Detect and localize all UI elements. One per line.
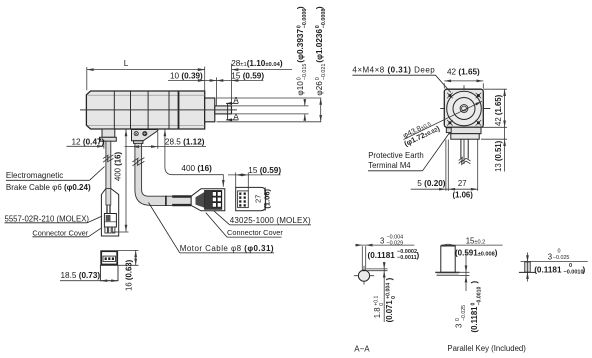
svg-text:27: 27 — [458, 179, 467, 188]
svg-text:Protective Earth: Protective Earth — [368, 151, 423, 160]
svg-text:3: 3 — [548, 252, 552, 261]
svg-text:(0.1181: (0.1181 — [368, 251, 396, 260]
svg-text:Parallel Key (Included): Parallel Key (Included) — [447, 344, 526, 353]
svg-text:−0.029: −0.029 — [387, 240, 404, 246]
svg-text:−0.0010: −0.0010 — [564, 270, 584, 276]
svg-text:−0.0008: −0.0008 — [321, 9, 327, 29]
svg-text:18.5 (0.73): 18.5 (0.73) — [61, 271, 101, 280]
svg-text:1.8: 1.8 — [373, 307, 382, 318]
svg-text:): ) — [470, 281, 479, 284]
svg-text:−0.015: −0.015 — [302, 64, 308, 81]
svg-text:Connector Cover: Connector Cover — [227, 228, 283, 237]
svg-text:42 (1.65): 42 (1.65) — [494, 94, 503, 126]
svg-text:A: A — [233, 96, 239, 105]
svg-text:Connector Cover: Connector Cover — [32, 229, 88, 238]
svg-text:42 (1.65): 42 (1.65) — [447, 68, 480, 77]
svg-text:10 (0.39): 10 (0.39) — [170, 72, 203, 81]
svg-text:(0.1181: (0.1181 — [470, 306, 479, 333]
svg-text:12 (0.47): 12 (0.47) — [72, 137, 105, 146]
svg-text:13 (0.51): 13 (0.51) — [494, 140, 503, 172]
svg-text:400 (16): 400 (16) — [181, 164, 212, 173]
svg-text:(0.1181: (0.1181 — [534, 266, 562, 275]
svg-text:400 (16): 400 (16) — [113, 152, 122, 181]
svg-text:φ26: φ26 — [315, 81, 324, 96]
svg-text:(1.06): (1.06) — [453, 191, 474, 200]
svg-text:27: 27 — [253, 195, 262, 203]
svg-text:(φ1.0236: (φ1.0236 — [315, 29, 324, 63]
svg-text:Brake Cable φ6 (φ0.24): Brake Cable φ6 (φ0.24) — [6, 183, 91, 192]
svg-text:φ10: φ10 — [296, 81, 305, 96]
svg-text:4×M4×8 (0.31) Deep: 4×M4×8 (0.31) Deep — [352, 66, 435, 75]
svg-text:Electromagnetic: Electromagnetic — [6, 171, 63, 180]
svg-text:): ) — [315, 6, 324, 9]
svg-text:−0.0011: −0.0011 — [397, 255, 417, 261]
svg-text:(0.071: (0.071 — [385, 300, 394, 323]
svg-text:Motor Cable φ8 (φ0.31): Motor Cable φ8 (φ0.31) — [180, 244, 274, 253]
svg-text:): ) — [296, 6, 305, 9]
svg-text:0: 0 — [558, 249, 561, 255]
svg-text:5557-02R-210 (MOLEX): 5557-02R-210 (MOLEX) — [5, 215, 90, 224]
svg-text:A: A — [233, 112, 239, 121]
svg-text:3: 3 — [380, 236, 384, 245]
svg-text:15 (0.59): 15 (0.59) — [231, 72, 264, 81]
svg-text:A−A: A−A — [354, 344, 370, 353]
svg-text:28.5 (1.12): 28.5 (1.12) — [165, 138, 205, 147]
svg-text:−0.021: −0.021 — [321, 64, 327, 81]
svg-text:3: 3 — [455, 324, 464, 328]
svg-text:0: 0 — [391, 296, 397, 299]
svg-text:−0.025: −0.025 — [461, 305, 467, 321]
svg-text:(1.06): (1.06) — [263, 189, 272, 209]
svg-text:−0.0006: −0.0006 — [302, 9, 308, 29]
svg-text:16 (0.63): 16 (0.63) — [125, 259, 134, 291]
svg-text:43025-1000 (MOLEX): 43025-1000 (MOLEX) — [230, 216, 311, 225]
svg-text:−0.025: −0.025 — [553, 255, 570, 261]
svg-text:0: 0 — [569, 263, 572, 269]
svg-text:5 (0.20): 5 (0.20) — [417, 179, 446, 188]
svg-text:): ) — [417, 251, 420, 260]
svg-text:): ) — [583, 266, 586, 275]
svg-text:L: L — [124, 59, 129, 68]
svg-text:): ) — [385, 277, 394, 280]
svg-text:Terminal M4: Terminal M4 — [368, 161, 411, 170]
svg-text:15 (0.59): 15 (0.59) — [248, 166, 281, 175]
svg-text:−0.0010: −0.0010 — [476, 286, 482, 305]
svg-text:(φ0.3937: (φ0.3937 — [296, 29, 305, 63]
